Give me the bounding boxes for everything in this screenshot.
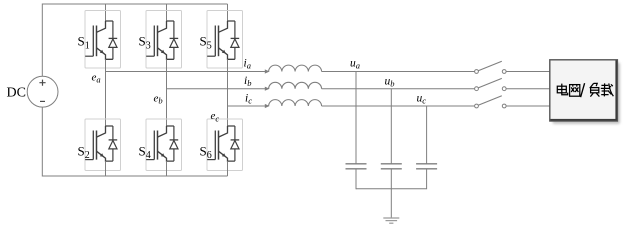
IGBT cell box S2 (85, 119, 121, 171)
wire bottom DC rail (42, 175, 227, 177)
wire below capacitor a (355, 169, 357, 189)
transistor S5 gate lead (207, 55, 215, 57)
transistor S4 body bar (157, 131, 159, 160)
wire left DC riser bottom (41, 107, 43, 176)
wire to ground (390, 189, 392, 218)
diode S3 cathode bar (170, 37, 179, 39)
transistor S3 gate lead (146, 55, 154, 57)
transistor S4 emitter arrow (161, 153, 165, 157)
current arrow ib (265, 87, 270, 91)
transistor S6 body bar (218, 131, 220, 160)
capacitor Cc top plate (416, 163, 437, 165)
wire capacitor branch c (426, 106, 428, 164)
transistor S1 gate lead (85, 55, 93, 57)
diode S4 cathode bar (170, 139, 179, 141)
wire phase a switch to load (506, 71, 550, 73)
wire collector jog S2 (97, 126, 113, 137)
wire leg 2 midsection (227, 59, 229, 126)
transistor S4 gate bar (153, 131, 155, 160)
wire collector jog S6 (219, 126, 235, 137)
wire phase b inductor to switch (322, 88, 475, 90)
wire capacitor common bus (356, 188, 427, 190)
IGBT cell box S5 (207, 11, 243, 69)
wire top DC rail (42, 3, 227, 5)
wire below capacitor c (426, 169, 428, 189)
diode S5 branch wire (234, 21, 236, 59)
wire phase c from leg to inductor (228, 105, 267, 107)
wire phase c switch to load (506, 105, 550, 107)
switch Kb blade (478, 78, 502, 88)
label 电网/负载 glyphs (557, 83, 613, 97)
transistor S6 emitter (219, 151, 235, 161)
IGBT cell box S4 (146, 119, 182, 171)
ground symbol (383, 218, 399, 223)
wire collector jog S5 (219, 21, 235, 32)
diode S4 triangle (170, 141, 178, 149)
diode S6 triangle (231, 141, 239, 149)
wire collector jog S3 (158, 21, 174, 32)
switch Kc blade (478, 96, 502, 106)
transistor S2 gate bar (92, 131, 94, 160)
DC voltage source circle (27, 76, 58, 107)
capacitor Cc bottom plate (416, 168, 437, 170)
wire leg 0 midsection (105, 59, 107, 126)
wire leg 2 from top rail (227, 4, 229, 21)
diode S5 triangle (231, 39, 239, 47)
diode S2 cathode bar (109, 139, 118, 141)
switch Kb right contact (502, 87, 506, 91)
transistor S4 emitter (158, 151, 174, 161)
wire phase b switch to load (506, 88, 550, 90)
IGBT cell box S1 (85, 11, 121, 69)
wire phase b from leg to inductor (167, 88, 267, 90)
capacitor Ca top plate (346, 163, 367, 165)
diode S2 branch wire (112, 126, 114, 161)
current arrow ic (265, 104, 270, 108)
wire leg 1 to bottom rail (166, 161, 168, 176)
wire capacitor branch a (355, 72, 357, 164)
inductor Lb (269, 82, 322, 88)
capacitor Ca bottom plate (346, 168, 367, 170)
transistor S6 gate bar (214, 131, 216, 160)
DC source minus sign (40, 100, 45, 102)
wire leg 0 to bottom rail (105, 161, 107, 176)
wire phase c inductor to switch (322, 105, 475, 107)
diode S6 cathode bar (231, 139, 240, 141)
transistor S2 body bar (96, 131, 98, 160)
diode S6 branch wire (234, 126, 236, 161)
transistor S5 emitter (219, 48, 235, 60)
transistor S6 emitter arrow (222, 153, 226, 157)
wire collector jog S1 (97, 21, 113, 32)
transistor S5 body bar (218, 26, 220, 57)
diode S5 cathode bar (231, 37, 240, 39)
switch Kc left contact (475, 104, 479, 108)
capacitor Cb bottom plate (381, 168, 402, 170)
transistor S5 emitter arrow (222, 50, 226, 54)
wire collector jog S4 (158, 126, 174, 137)
switch Ka right contact (502, 70, 506, 74)
inductor Lc (269, 100, 322, 106)
switch Ka blade (478, 61, 502, 70)
diode S4 branch wire (173, 126, 175, 161)
diode S3 branch wire (173, 21, 175, 59)
diode S2 triangle (109, 141, 117, 149)
wire capacitor branch b (390, 89, 392, 164)
wire left DC riser top (41, 4, 43, 77)
transistor S6 gate lead (207, 159, 215, 161)
transistor S2 gate lead (85, 159, 93, 161)
wire leg 0 from top rail (105, 4, 107, 21)
DC source plus sign (39, 80, 45, 86)
transistor S2 emitter (97, 151, 113, 161)
wire phase a from leg to inductor (106, 71, 267, 73)
diode S1 cathode bar (109, 37, 118, 39)
diode S1 branch wire (112, 21, 114, 59)
capacitor Cb top plate (381, 163, 402, 165)
svg-text:DC: DC (7, 86, 26, 101)
transistor S1 emitter (97, 48, 113, 60)
IGBT cell box S6 (207, 119, 243, 171)
IGBT cell box S3 (146, 11, 182, 69)
transistor S2 emitter arrow (100, 153, 104, 157)
transistor S1 gate bar (92, 26, 94, 57)
diode S1 triangle (109, 39, 117, 47)
transistor S4 gate lead (146, 159, 154, 161)
transistor S5 gate bar (214, 26, 216, 57)
transistor S3 gate bar (153, 26, 155, 57)
wire below capacitor b (390, 169, 392, 189)
transistor S3 emitter arrow (161, 50, 165, 54)
switch Kc right contact (502, 104, 506, 108)
inductor La (269, 65, 322, 71)
transistor S3 body bar (157, 26, 159, 57)
wire leg 2 to bottom rail (227, 161, 229, 176)
transistor S3 emitter (158, 48, 174, 60)
wire phase a inductor to switch (322, 71, 475, 73)
switch Kb left contact (475, 87, 479, 91)
transistor S1 emitter arrow (100, 50, 104, 54)
wire leg 1 from top rail (166, 4, 168, 21)
transistor S1 body bar (96, 26, 98, 57)
wire leg 1 midsection (166, 59, 168, 126)
load box (grid/load) (550, 60, 620, 124)
current arrow ia (265, 69, 270, 73)
diode S3 triangle (170, 39, 178, 47)
switch Ka left contact (475, 70, 479, 74)
